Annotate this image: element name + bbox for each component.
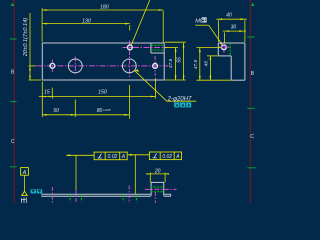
side view hole centerline v	[223, 43, 225, 52]
dim row1 line 15+150	[39, 96, 156, 98]
frame right border line	[249, 0, 251, 203]
side dim 45 line	[209, 55, 211, 80]
slot section left wall	[150, 182, 152, 195]
slot section hidden line 2	[151, 191, 165, 193]
svg-text:0.02: 0.02	[108, 154, 118, 160]
FCF2 leader	[128, 155, 149, 194]
ext top edge right	[165, 41, 186, 43]
svg-text:0.02: 0.02	[162, 154, 172, 160]
slot section top edge	[151, 181, 165, 183]
hole large1	[68, 59, 82, 73]
M8 leader diagonal	[209, 25, 223, 45]
slot dim ext lines	[150, 173, 165, 183]
ext bottom edge right	[165, 79, 186, 81]
ext large1 column	[74, 100, 76, 118]
M8 leader arrow	[220, 42, 223, 45]
svg-text:20±0.1(7±0.14): 20±0.1(7±0.14)	[23, 18, 29, 58]
centerline hole column small1	[51, 60, 53, 73]
frame left border line	[13, 0, 15, 203]
centerline hole column large2 and top hole	[129, 41, 131, 78]
dim 55 arrows	[183, 43, 185, 80]
svg-text:55: 55	[177, 57, 183, 63]
svg-text:30: 30	[231, 25, 237, 31]
zone tick right y167.8	[247, 167, 255, 169]
centerline lower row	[36, 65, 168, 67]
dim 50 arrows	[42, 114, 75, 116]
hole small1	[50, 63, 55, 68]
hole large2	[122, 59, 136, 73]
dim 40 ext right	[244, 20, 246, 42]
bottom hidden hole1 right	[80, 195, 82, 202]
dim row2 line 50+80	[42, 114, 129, 116]
svg-text:40: 40	[226, 12, 232, 18]
bottom centerline large2	[128, 186, 130, 204]
hole small2	[153, 64, 158, 69]
dim 180/130 ext left	[41, 8, 43, 41]
leader arrow at hole	[135, 69, 140, 72]
dim 30 line	[223, 30, 246, 32]
bottom hidden hole1 left	[69, 195, 71, 202]
bottom view right end	[170, 194, 172, 196]
dim 47.5 arrows	[175, 48, 177, 81]
ext bottom left	[29, 79, 41, 81]
ext small1 column	[51, 88, 53, 99]
dim 40 ext left	[217, 20, 219, 42]
bottom view second edge	[41, 195, 170, 197]
svg-text:150: 150	[98, 90, 107, 96]
dim 30 arrows	[225, 30, 244, 32]
ext small2 column	[155, 78, 157, 99]
svg-text:15: 15	[44, 90, 50, 96]
FCF1 symbol	[98, 154, 102, 158]
dim 40 line	[216, 18, 247, 20]
M8 highlighted depth cell	[202, 17, 207, 22]
datum triangle	[22, 191, 28, 195]
zone tick right y108.4	[247, 107, 254, 109]
dim 55 line	[183, 43, 185, 80]
dim 130 line	[43, 23, 130, 25]
dim 180 line	[43, 9, 164, 11]
side dim 47.5 line	[199, 48, 201, 80]
dim 130 arrows	[42, 23, 129, 25]
side ext bottom left	[197, 79, 231, 81]
slot section hidden line 1	[151, 186, 165, 188]
zone arrow top-left	[11, 3, 15, 6]
side view hole	[222, 45, 227, 50]
FCF1 box	[94, 152, 127, 160]
FCF2 leader arrow	[127, 154, 131, 156]
svg-text:47.5: 47.5	[193, 60, 199, 70]
FCF2 box	[149, 152, 181, 160]
leader line to large hole	[135, 71, 197, 101]
svg-text:C: C	[11, 139, 15, 145]
side view dims	[197, 19, 247, 80]
centerline hole column large1	[74, 57, 76, 76]
FCF2 symbol	[153, 154, 157, 158]
dim 30 ext left	[224, 32, 226, 43]
side view right edge	[244, 43, 246, 80]
svg-text:+0.05: +0.05	[103, 108, 111, 112]
dim 180 arrows	[42, 9, 163, 11]
zone tick right y37	[247, 36, 254, 38]
bottom left cut glyph	[21, 198, 27, 204]
slot section centerline	[145, 188, 177, 190]
slot dim arrows	[147, 173, 169, 175]
FCF1 leader arrow	[66, 154, 71, 156]
side view bottom edge	[231, 79, 245, 81]
bottom centerline large1	[75, 190, 77, 204]
svg-text:A: A	[175, 154, 180, 160]
M8 leader underline	[195, 24, 208, 26]
side view hidden slot bottom	[229, 43, 231, 56]
leader steep from top hole	[131, 0, 150, 45]
datum box	[21, 168, 29, 176]
svg-text:50: 50	[53, 108, 59, 114]
svg-text:180: 180	[100, 4, 109, 10]
side view tab left edge	[217, 43, 219, 56]
bottom centerline small1	[51, 187, 53, 203]
dim 150 arrow right	[151, 96, 156, 98]
ext lower row left	[29, 65, 36, 67]
FCF1 leader	[66, 155, 94, 190]
svg-text:2-φ20H7: 2-φ20H7	[167, 96, 192, 102]
bottom hidden hole2 right	[136, 195, 138, 202]
zone arrow top-right	[251, 3, 255, 6]
zone tick left y39	[10, 38, 16, 40]
side view hole centerline h	[219, 46, 230, 48]
surface finish marks highlighted	[31, 189, 43, 193]
slot section dim 20 line	[147, 173, 168, 175]
svg-text:A: A	[121, 154, 126, 160]
side dim 47.5 arrows	[199, 48, 201, 80]
bottom centerline small2	[154, 192, 156, 203]
dim 180 ext right	[162, 11, 164, 42]
svg-text:45: 45	[203, 61, 209, 67]
centerline upper row	[123, 47, 169, 49]
dim 20 arrows	[29, 66, 31, 80]
M8 depth glyph	[202, 18, 205, 21]
ext upper row right	[165, 47, 178, 49]
hole top small	[127, 45, 132, 50]
bottom view top edge	[41, 193, 170, 195]
dim 130 ext right	[129, 25, 131, 31]
dim 15 arrows	[42, 96, 52, 98]
zone tick left y166.8	[10, 166, 16, 168]
part outline main view	[42, 43, 164, 80]
highlighted annotation row	[174, 102, 191, 107]
slot step left edge	[150, 43, 152, 53]
slot section right wall	[163, 182, 165, 195]
centerline hole column small2	[154, 56, 156, 76]
slot bottom visible edge	[151, 52, 164, 54]
side view tab bottom edge	[218, 55, 231, 57]
side view body left edge	[230, 56, 232, 80]
dim 20 line	[29, 13, 31, 80]
side ext upper row left	[197, 47, 222, 49]
side dim 45 arrows	[210, 55, 212, 80]
dim 40 arrows	[218, 18, 245, 20]
side ext step left	[207, 55, 218, 57]
slot hidden line upper	[151, 44, 164, 46]
ext large2 column	[128, 85, 130, 119]
svg-text:C: C	[250, 134, 254, 140]
slot hidden line lower	[151, 49, 164, 51]
bottom hidden hole2 left	[122, 195, 124, 202]
datum stem	[24, 175, 26, 191]
zone tick left y101.6	[10, 101, 16, 103]
side view top edge	[218, 42, 245, 44]
svg-text:47.5: 47.5	[168, 59, 174, 69]
svg-text:80: 80	[97, 108, 103, 114]
ext left edge column	[41, 82, 43, 118]
dim 47.5 line	[175, 48, 177, 81]
dim 80 arrow right	[125, 114, 130, 116]
svg-text:130: 130	[82, 18, 91, 24]
